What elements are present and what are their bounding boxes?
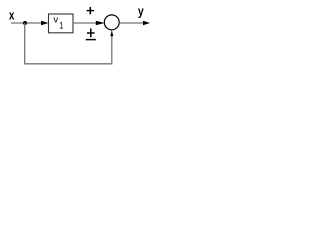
svg-text:y: y: [138, 5, 144, 19]
svg-text:x: x: [9, 8, 15, 23]
svg-text:1: 1: [59, 20, 63, 31]
svg-text:v: v: [53, 14, 58, 25]
